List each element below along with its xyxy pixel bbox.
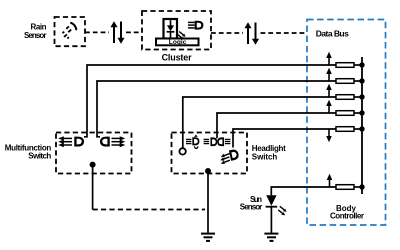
cluster LED D1: [167, 20, 175, 38]
resistor R4: [336, 110, 365, 115]
multifunction common node: [90, 162, 96, 168]
bus arrow row4: [326, 100, 332, 113]
svg-text:Cluster: Cluster: [162, 53, 192, 63]
wire W3 off contact to bus: [183, 97, 336, 148]
multifunction flash-left arrows: [58, 136, 72, 147]
wire W1 multifunction left to bus: [84, 65, 336, 137]
sun sensor light rays: [278, 206, 286, 215]
ground G1: [201, 234, 215, 241]
bus arrow row5 (down): [326, 129, 332, 142]
bus arrow row1: [326, 52, 332, 65]
multifunction flash-right arrows: [112, 136, 126, 147]
wire multifunction to ground rail (down): [92, 165, 94, 210]
wire W5 headlamp contact to bus: [233, 129, 336, 148]
svg-text:Data Bus: Data Bus: [316, 28, 349, 38]
label Rain Sensor: [24, 23, 47, 41]
data bus box (blue dashed): [307, 20, 386, 226]
headlight common node: [205, 168, 211, 174]
label Body Controller: [330, 204, 364, 220]
wire headlight common to ground: [207, 171, 209, 233]
svg-text:Controller: Controller: [330, 211, 364, 220]
headlight headlamp icon (low beam, rotated): [220, 149, 238, 164]
label Sun Sensor: [240, 195, 263, 211]
svg-text:Logic: Logic: [169, 39, 187, 46]
cluster logic base: [156, 39, 199, 47]
bus arrow row3: [326, 84, 332, 97]
svg-text:Switch: Switch: [28, 151, 51, 160]
headlight switch box: [172, 133, 248, 174]
svg-text:Switch: Switch: [252, 152, 278, 161]
dashed link cluster to data bus: [211, 32, 307, 34]
headlight off contact circle: [179, 148, 185, 154]
rain sensor box: [55, 17, 86, 46]
resistor R5: [336, 126, 365, 131]
svg-text:Sensor: Sensor: [240, 202, 263, 211]
bidirectional arrows 1: [110, 21, 124, 44]
resistor R1: [336, 62, 365, 67]
resistor R2: [336, 78, 365, 83]
svg-text:Rain: Rain: [31, 23, 47, 32]
bidirectional arrows 2: [244, 22, 259, 45]
resistor R6: [336, 184, 365, 189]
dashed link rain sensor to cluster: [85, 31, 142, 33]
rain sensor icon: [63, 23, 77, 39]
multifunction right lamp (mirrored D): [101, 137, 108, 147]
ground G2: [264, 234, 278, 241]
bus arrow row6: [327, 174, 333, 187]
cluster box: [142, 11, 211, 50]
sun sensor photodiode: [266, 195, 278, 233]
cluster display tower: [164, 19, 178, 39]
headlight parking lamps icon: [204, 137, 231, 146]
resistor R3: [336, 94, 365, 99]
data bus vertical rail: [361, 57, 363, 194]
bus arrow row2: [326, 68, 332, 81]
label Headlight Switch: [252, 144, 286, 161]
dashed ground link wire: [93, 209, 205, 211]
multifunction left lamp D: [75, 137, 82, 147]
wire W4 parking contact to bus: [217, 113, 336, 138]
cluster high-beam indicator icon: [188, 21, 202, 30]
svg-text:Sensor: Sensor: [24, 31, 47, 40]
multifunction switch box: [56, 133, 132, 174]
wire W2 multifunction right to bus: [97, 81, 336, 137]
label Multifunction Switch: [5, 143, 52, 160]
cluster LED light rays: [178, 32, 186, 40]
wire W6 sun sensor to bus: [271, 187, 336, 195]
headlight auto position icon: [186, 135, 199, 149]
